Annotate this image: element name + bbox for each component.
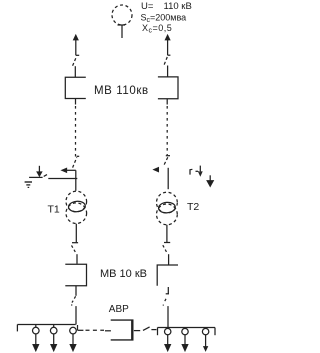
svg-text:МВ 10 кВ: МВ 10 кВ [100, 268, 147, 280]
svg-text:МВ 110кв: МВ 110кв [94, 85, 149, 97]
svg-text:110 кВ: 110 кВ [164, 1, 192, 12]
svg-text:Xc=0,5: Xc=0,5 [142, 23, 172, 35]
svg-text:АВР: АВР [109, 304, 129, 315]
svg-text:Т1: Т1 [48, 204, 60, 216]
svg-text:Т2: Т2 [187, 201, 199, 213]
svg-text:U=: U= [141, 1, 154, 12]
